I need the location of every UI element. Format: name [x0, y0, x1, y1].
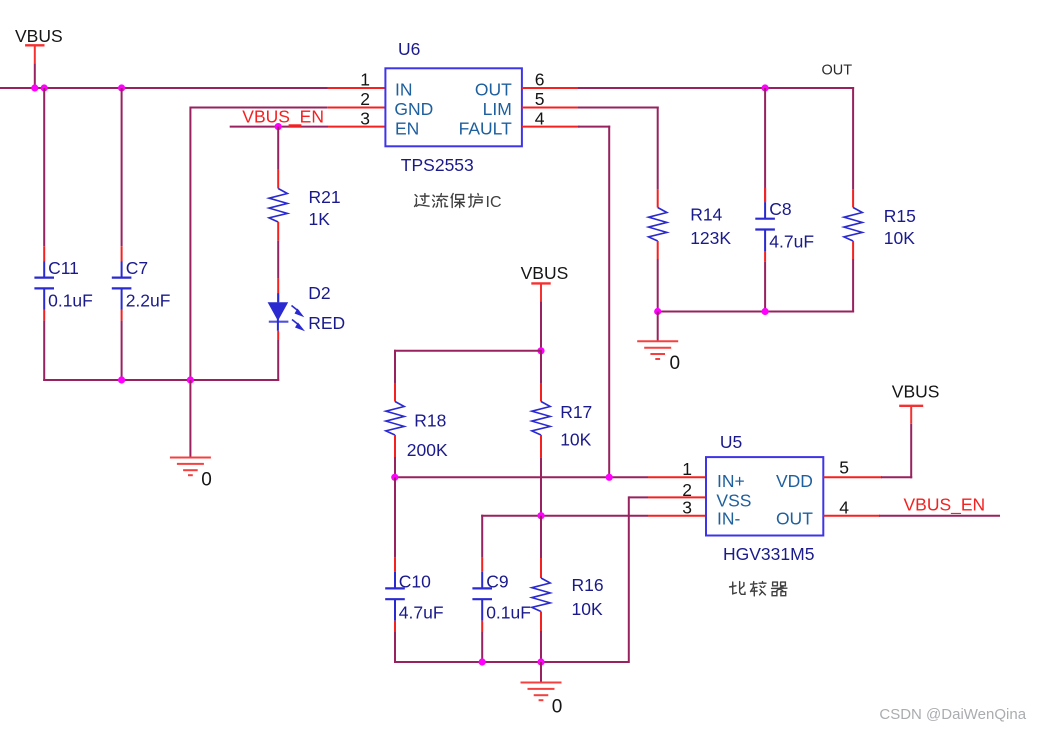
wire VDD net horizontal: [881, 476, 912, 478]
svg-text:VBUS: VBUS: [521, 263, 569, 283]
svg-text:U6: U6: [398, 39, 420, 59]
svg-text:C7: C7: [126, 258, 148, 278]
ground middle: [637, 341, 678, 359]
ground left: [170, 458, 211, 476]
wire R16 bottom: [540, 631, 542, 662]
svg-text:1: 1: [682, 459, 692, 479]
wire VBUS mid drop: [540, 301, 542, 351]
wire U6 GND net horizontal: [190, 107, 327, 109]
wire C10 bottom: [394, 631, 396, 663]
svg-text:OUT: OUT: [776, 509, 813, 529]
wire to ground symbol left: [189, 380, 191, 458]
wire R17 bottom: [540, 457, 542, 516]
junction C7/ground bus: [118, 376, 125, 383]
wire R16 pin2 stub: [540, 612, 542, 632]
svg-text:VDD: VDD: [776, 471, 813, 491]
resistor R21: [269, 189, 287, 223]
wire R14 pin2 stub: [657, 241, 659, 259]
svg-text:4: 4: [535, 108, 545, 128]
junction R16/ground bus: [537, 658, 544, 665]
wire U6 pin1 IN stub: [328, 87, 386, 89]
svg-text:C8: C8: [769, 199, 791, 219]
wire R15 bottom: [852, 259, 854, 313]
LED D2: [268, 293, 305, 331]
wire R14 bottom: [657, 259, 659, 312]
svg-text:10K: 10K: [560, 429, 591, 449]
wire U6 pin4 FAULT stub: [522, 126, 580, 128]
svg-text:0: 0: [552, 697, 563, 718]
wire D2 anode stub: [277, 278, 279, 302]
wire U5 pin5 VDD stub: [823, 476, 882, 478]
wire R18 bottom: [394, 457, 396, 478]
wire IN+ net horizontal: [394, 476, 648, 478]
junction VBUS/main: [31, 84, 38, 91]
wire C9 pin2 stub: [481, 621, 483, 632]
svg-text:R16: R16: [572, 575, 604, 595]
svg-text:0: 0: [201, 470, 212, 491]
wire C11 pin1 stub: [43, 246, 45, 261]
wire bottom-left ground bus: [43, 379, 279, 381]
svg-text:IC: IC: [486, 194, 502, 211]
wire R14 pin1 stub: [657, 189, 659, 207]
wire OUT-group ground bus: [658, 311, 854, 313]
wire U5 pin3 stub: [648, 515, 706, 517]
svg-text:VSS: VSS: [716, 490, 751, 510]
svg-text:U5: U5: [720, 432, 742, 452]
wire R21-D2: [277, 241, 279, 279]
svg-text:C10: C10: [399, 572, 431, 592]
svg-text:LIM: LIM: [483, 99, 512, 119]
wire R21 top: [277, 127, 279, 169]
svg-text:C11: C11: [48, 258, 79, 278]
svg-text:R14: R14: [690, 205, 722, 225]
wire R17 pin2 stub: [540, 435, 542, 457]
svg-text:4.7uF: 4.7uF: [399, 603, 444, 623]
svg-text:OUT: OUT: [475, 80, 512, 100]
svg-text:IN+: IN+: [717, 471, 745, 491]
wire VSS net horizontal: [629, 496, 648, 498]
wire U5 pin1 stub: [648, 476, 706, 478]
junction R14/ground bus: [654, 308, 661, 315]
wire GND column down: [189, 107, 191, 382]
svg-text:R17: R17: [560, 402, 592, 422]
ground bottom: [521, 683, 562, 701]
svg-text:3: 3: [360, 108, 370, 128]
op-amp U5 HGV331M5 body: [706, 457, 823, 535]
wire VBUS main bus y=88: [0, 87, 328, 89]
svg-text:IN: IN: [395, 80, 413, 100]
svg-text:R15: R15: [884, 206, 916, 226]
wire R18 pin2 stub: [394, 435, 396, 457]
resistor R14: [649, 208, 667, 242]
capacitor C7: [112, 261, 132, 310]
svg-text:R18: R18: [414, 410, 446, 430]
svg-text:10K: 10K: [884, 228, 915, 248]
svg-text:3: 3: [682, 497, 692, 517]
junction FAULT/IN+: [606, 474, 613, 481]
wire R21 pin2 stub: [277, 222, 279, 241]
wire R16 top: [540, 516, 542, 558]
svg-text:2.2uF: 2.2uF: [126, 291, 171, 311]
svg-text:D2: D2: [308, 283, 330, 303]
svg-text:5: 5: [839, 458, 849, 478]
wire R21 pin1 stub: [277, 169, 279, 189]
junction GND column/ground bus: [187, 376, 194, 383]
junction VBUS_EN/R21: [275, 123, 282, 130]
wire IN- net horizontal: [481, 515, 648, 517]
wire C8 pin2 stub: [764, 251, 766, 262]
wire R17 pin1 stub: [540, 383, 542, 402]
wire C10 top: [394, 477, 396, 557]
junction C7/main: [118, 84, 125, 91]
resistor R15: [844, 208, 862, 242]
wire C7 pin2 stub: [121, 310, 123, 321]
svg-text:5: 5: [535, 89, 545, 109]
wire C11 pin2 stub: [43, 310, 45, 321]
wire D2 bottom: [277, 340, 279, 381]
wire FAULT net vertical: [608, 126, 610, 479]
svg-text:123K: 123K: [690, 228, 731, 248]
capacitor C9: [472, 572, 492, 621]
power symbol VBUS right: [899, 406, 923, 424]
svg-text:0.1uF: 0.1uF: [486, 603, 531, 623]
svg-text:1K: 1K: [309, 209, 331, 229]
svg-text:VBUS_EN: VBUS_EN: [904, 494, 986, 515]
svg-text:0: 0: [670, 353, 681, 374]
wire VSS net vertical: [628, 496, 630, 663]
wire C8 top: [764, 88, 766, 202]
wire C8 bottom: [764, 262, 766, 312]
wire VBUS drop: [34, 63, 36, 88]
svg-text:2: 2: [360, 89, 370, 109]
wire C11 top: [43, 88, 45, 246]
annotation 过流保护IC: [415, 194, 483, 208]
capacitor C11: [34, 261, 54, 310]
svg-text:OUT: OUT: [822, 63, 853, 79]
wire VBUS_EN net horizontal: [230, 126, 328, 128]
wire OUT net horizontal: [578, 87, 854, 89]
svg-text:1: 1: [360, 70, 370, 90]
capacitor C8: [755, 202, 775, 251]
svg-text:IN-: IN-: [717, 509, 741, 529]
wire C9 pin1 stub: [481, 557, 483, 572]
power symbol VBUS middle: [531, 283, 550, 301]
wire R15 pin2 stub: [852, 241, 854, 259]
power symbol VBUS top-left: [25, 45, 44, 63]
svg-text:200K: 200K: [407, 440, 448, 460]
junction R18/C10/IN+: [391, 474, 398, 481]
wire U6 pin6 OUT stub: [522, 87, 579, 89]
junction OUT/C8: [762, 84, 769, 91]
svg-text:6: 6: [535, 70, 545, 90]
wire to ground symbol middle: [657, 312, 659, 342]
wire R18-R17 top bus: [394, 350, 542, 352]
svg-text:10K: 10K: [572, 599, 603, 619]
svg-text:VBUS: VBUS: [892, 382, 940, 402]
wire D2 cathode stub: [277, 331, 279, 340]
svg-text:CSDN @DaiWenQina: CSDN @DaiWenQina: [879, 706, 1026, 723]
wire R16 pin1 stub: [540, 558, 542, 578]
wire R18 top: [394, 350, 396, 383]
junction VBUS mid/R17-R18: [537, 347, 544, 354]
wire C7 pin1 stub: [121, 246, 123, 261]
wire U5 pin4 OUT stub: [823, 515, 880, 517]
wire VBUS right drop: [910, 424, 912, 479]
resistor R16: [532, 578, 550, 612]
resistor R18: [386, 402, 404, 436]
svg-text:C9: C9: [486, 572, 508, 592]
wire R14 top: [657, 107, 659, 190]
wire to ground symbol bottom: [540, 662, 542, 683]
svg-text:GND: GND: [394, 99, 433, 119]
svg-text:0.1uF: 0.1uF: [48, 291, 93, 311]
annotation 比较器: [730, 582, 787, 596]
svg-text:R21: R21: [309, 187, 341, 207]
wire FAULT net horizontal: [578, 126, 610, 128]
wire U5 pin2 stub: [648, 496, 706, 498]
resistor R17: [532, 402, 550, 436]
svg-text:RED: RED: [308, 313, 345, 333]
wire U6 pin2 GND stub: [327, 107, 385, 109]
svg-text:VBUS: VBUS: [15, 26, 63, 46]
junction C8/ground bus: [762, 308, 769, 315]
svg-text:TPS2553: TPS2553: [401, 155, 474, 175]
wire R15 top: [852, 87, 854, 189]
wire C10 pin2 stub: [394, 621, 396, 632]
wire C11 bottom: [43, 321, 45, 381]
wire R15 pin1 stub: [852, 189, 854, 207]
svg-text:EN: EN: [395, 118, 419, 138]
svg-text:FAULT: FAULT: [459, 118, 512, 138]
wire VBUS_EN right horizontal: [879, 515, 1000, 517]
wire comparator ground bus: [395, 661, 629, 663]
wire C9 bottom: [481, 631, 483, 663]
junction C11/main: [41, 84, 48, 91]
svg-text:VBUS_EN: VBUS_EN: [242, 107, 324, 128]
wire C7 bottom: [121, 321, 123, 381]
wire C8 pin1 stub: [764, 188, 766, 203]
wire LIM net horizontal: [578, 107, 659, 109]
op-amp U6 TPS2553 body: [385, 68, 522, 146]
junction R17/R16/IN-: [537, 512, 544, 519]
svg-text:4.7uF: 4.7uF: [769, 232, 814, 252]
wire U6 pin3 EN stub: [328, 126, 385, 128]
wire C7 top: [121, 88, 123, 246]
wire R17 top: [540, 351, 542, 383]
wire C9 top: [481, 515, 483, 558]
junction C9/ground bus: [479, 658, 486, 665]
capacitor C10: [385, 572, 405, 621]
wire C10 pin1 stub: [394, 557, 396, 572]
wire U6 pin5 LIM stub: [522, 107, 579, 109]
svg-text:HGV331M5: HGV331M5: [723, 544, 814, 564]
wire R18 pin1 stub: [394, 383, 396, 402]
